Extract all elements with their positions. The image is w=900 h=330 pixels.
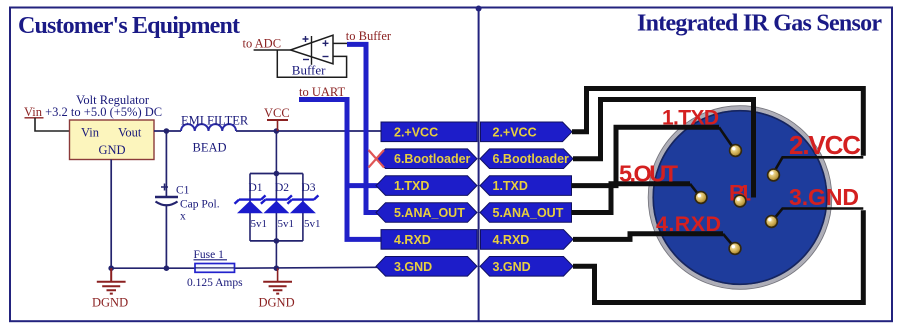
- svg-text:Cap Pol.: Cap Pol.: [180, 199, 220, 211]
- svg-text:DGND: DGND: [259, 296, 295, 310]
- svg-text:1.TXD: 1.TXD: [493, 179, 528, 193]
- svg-text:5.ANA_OUT: 5.ANA_OUT: [493, 206, 564, 220]
- svg-text:Vin +3.2 to +5.0 (+5%) DC: Vin +3.2 to +5.0 (+5%) DC: [24, 105, 162, 119]
- svg-text:3.GND: 3.GND: [789, 184, 859, 210]
- svg-text:5v1: 5v1: [278, 218, 295, 230]
- svg-text:6.Bootloader: 6.Bootloader: [493, 152, 570, 166]
- svg-text:VCC: VCC: [264, 106, 290, 120]
- svg-text:DGND: DGND: [92, 296, 128, 310]
- svg-text:Customer's Equipment: Customer's Equipment: [18, 13, 240, 39]
- svg-text:to Buffer: to Buffer: [346, 29, 392, 43]
- svg-text:to ADC: to ADC: [243, 37, 282, 51]
- svg-text:5.ANA_OUT: 5.ANA_OUT: [394, 206, 465, 220]
- svg-text:Fuse 1: Fuse 1: [194, 249, 225, 261]
- svg-text:0.125 Amps: 0.125 Amps: [187, 277, 243, 289]
- svg-text:C1: C1: [176, 185, 190, 197]
- svg-text:2.+VCC: 2.+VCC: [394, 125, 438, 139]
- svg-text:EMI FILTER: EMI FILTER: [181, 114, 249, 128]
- svg-text:GND: GND: [99, 143, 126, 157]
- svg-text:D1: D1: [249, 182, 263, 194]
- svg-text:1.TXD: 1.TXD: [662, 107, 719, 130]
- svg-text:to UART: to UART: [299, 85, 345, 99]
- svg-text:2.VCC: 2.VCC: [789, 130, 861, 160]
- svg-text:4.RXD: 4.RXD: [656, 212, 721, 236]
- svg-text:Integrated IR Gas Sensor: Integrated IR Gas Sensor: [637, 11, 882, 37]
- svg-text:D2: D2: [275, 182, 289, 194]
- svg-text:Vout: Vout: [118, 126, 142, 140]
- svg-text:1.TXD: 1.TXD: [394, 179, 429, 193]
- svg-text:4.RXD: 4.RXD: [394, 233, 431, 247]
- svg-text:3.GND: 3.GND: [493, 260, 531, 274]
- svg-text:5v1: 5v1: [251, 218, 268, 230]
- svg-text:D3: D3: [302, 182, 316, 194]
- svg-text:2.+VCC: 2.+VCC: [493, 125, 537, 139]
- svg-text:4.RXD: 4.RXD: [493, 233, 530, 247]
- svg-text:6.Bootloader: 6.Bootloader: [394, 152, 471, 166]
- svg-text:5.OUT: 5.OUT: [619, 161, 679, 187]
- svg-text:x: x: [180, 211, 186, 223]
- svg-text:3.GND: 3.GND: [394, 260, 432, 274]
- svg-text:BEAD: BEAD: [193, 141, 227, 155]
- svg-text:Vin: Vin: [81, 126, 100, 140]
- svg-text:5v1: 5v1: [304, 218, 321, 230]
- svg-text:Buffer: Buffer: [292, 63, 326, 78]
